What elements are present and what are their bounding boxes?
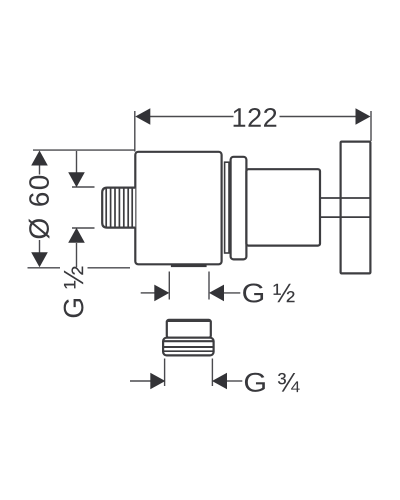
label 3/4 (adapter) bbox=[278, 373, 300, 392]
dimension G1/2 nipple: lines and ticks bbox=[72, 151, 95, 267]
dimension 122: extension and dimension lines bbox=[135, 111, 371, 152]
arrowheads dimension G3/4 bbox=[150, 373, 227, 390]
handle stem / crossbar lines bbox=[320, 198, 370, 217]
trim ring between body and flange bbox=[225, 162, 229, 253]
arrowheads dimension G1/2 bottom bbox=[154, 285, 224, 302]
adapter base thread lines bbox=[163, 341, 213, 351]
escutcheon flange bbox=[231, 157, 247, 260]
bottom outlet stub G1/2 bbox=[171, 264, 207, 267]
arrowheads dimension dia 60 bbox=[31, 151, 48, 268]
label G (adapter) bbox=[245, 373, 265, 392]
adapter cap (separate part below) bbox=[167, 320, 211, 338]
cross handle (side view) bbox=[341, 142, 371, 274]
label G (bottom outlet) bbox=[243, 283, 263, 302]
valve cartridge cylinder bbox=[246, 169, 320, 245]
label 1/2 (bottom outlet) bbox=[274, 284, 295, 303]
dimension G1/2 bottom outlet: lines bbox=[141, 272, 241, 300]
label 122 bbox=[234, 108, 277, 127]
label G 1/2 rotated bbox=[64, 267, 84, 318]
arrowheads dimension G1/2 nipple bbox=[68, 172, 85, 243]
dimension G3/4 adapter: lines bbox=[130, 359, 242, 387]
label dia 60 rotated bbox=[29, 176, 50, 239]
arrowheads dimension 122 bbox=[135, 108, 370, 125]
nipple thread lines bbox=[106, 189, 132, 227]
valve body (main block) bbox=[135, 152, 221, 264]
adapter threaded base G3/4 bbox=[163, 338, 214, 356]
dimension dia 60: extension and dimension lines bbox=[28, 150, 135, 268]
threaded inlet nipple G1/2 (left) bbox=[102, 188, 135, 228]
